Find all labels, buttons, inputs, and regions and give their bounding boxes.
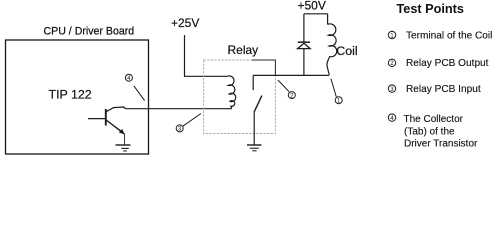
transistor Q1 emitter arrowhead <box>119 129 125 135</box>
test point 3 leader line <box>183 114 201 127</box>
relay switch blade <box>254 96 262 112</box>
svg-text:Relay: Relay <box>228 43 259 57</box>
svg-text:(Tab) of the: (Tab) of the <box>404 126 455 137</box>
test point 4 circle <box>125 74 132 82</box>
test point 4 leader line <box>134 86 145 101</box>
CPU / Driver Board box <box>6 40 149 154</box>
wire diode anode to switch wire <box>303 49 305 76</box>
svg-text:Test Points: Test Points <box>397 2 464 16</box>
inductor load Coil <box>327 24 337 75</box>
relay coil K1 <box>227 76 235 109</box>
diode D1 triangle <box>298 43 311 48</box>
svg-text:Relay PCB Input: Relay PCB Input <box>406 84 481 95</box>
ground under transistor <box>116 145 131 151</box>
svg-text:Terminal of the Coil: Terminal of the Coil <box>406 31 492 42</box>
svg-text:TIP 122: TIP 122 <box>49 88 92 102</box>
svg-text:CPU / Driver Board: CPU / Driver Board <box>44 26 135 38</box>
test point 1 leader line <box>331 79 336 97</box>
transistor Q1 emitter lead <box>106 120 124 134</box>
list item 1 marker <box>388 31 395 39</box>
diode D1 cathode bar <box>298 41 310 43</box>
svg-text:3: 3 <box>390 86 394 93</box>
wire +25V supply to relay coil <box>185 35 228 76</box>
test point 2 leader line <box>278 80 289 92</box>
svg-text:4: 4 <box>390 115 394 122</box>
test point 3 circle <box>176 125 183 133</box>
wire +50V to load coil <box>327 14 329 25</box>
svg-text:1: 1 <box>390 32 394 39</box>
dark segment along relay box top edge <box>252 60 275 75</box>
wire +50V top rail <box>304 13 328 15</box>
relay PCB box <box>204 60 276 134</box>
wire emitter to ground <box>124 134 126 145</box>
list item 2 marker <box>388 59 395 67</box>
wire relay switch to ground <box>253 111 255 145</box>
svg-text:+50V: +50V <box>298 0 326 13</box>
wire collector to relay coil (node 3/4 wire) <box>126 108 232 110</box>
transistor Q1 collector lead <box>106 107 126 112</box>
svg-text:+25V: +25V <box>171 16 199 30</box>
test point 2 circle <box>288 92 295 100</box>
svg-text:2: 2 <box>390 60 394 67</box>
wire relay switch to diode and coil terminal <box>253 74 329 76</box>
wire +50V to diode cathode <box>303 14 305 42</box>
list item 4 marker <box>388 114 395 122</box>
svg-text:Coil: Coil <box>336 44 357 58</box>
svg-text:The Collector: The Collector <box>404 114 464 125</box>
svg-text:Driver Transistor: Driver Transistor <box>404 139 478 150</box>
transistor Q1 TIP122 base lead <box>88 118 105 120</box>
svg-text:Relay PCB Output: Relay PCB Output <box>406 58 489 69</box>
list item 3 marker <box>388 85 395 93</box>
test point 1 circle <box>335 97 342 105</box>
relay switch fixed contact stub <box>252 75 254 90</box>
ground under relay <box>247 145 262 151</box>
transistor Q1 base bar <box>105 109 107 126</box>
